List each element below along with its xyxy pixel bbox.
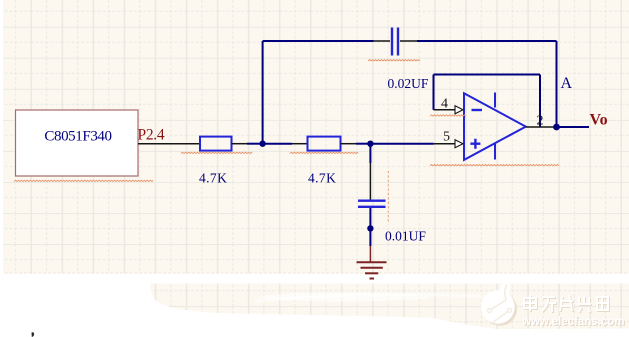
svg-text:2: 2 [537, 114, 544, 129]
feedback wire down to output [539, 75, 541, 128]
resistor R1 [200, 137, 232, 151]
wire C2 to ground [369, 208, 371, 246]
op-amp plus sign [470, 139, 480, 149]
svg-text:4.7K: 4.7K [308, 171, 336, 186]
trace upper [491, 300, 506, 310]
wire IC to R1 [138, 143, 200, 145]
resistor R2 [308, 137, 341, 151]
pin 4 arrow [455, 106, 463, 114]
wire top down to output node [556, 41, 558, 127]
junction node C2/ground [367, 225, 373, 231]
wire node to R2 [263, 143, 292, 145]
svg-text:0.02UF: 0.02UF [388, 76, 429, 91]
op-amp U2 triangle [464, 93, 526, 160]
feedback wire top [434, 74, 541, 76]
junction node R1/R2/C1 [259, 141, 265, 147]
top wire left of C1 [263, 40, 374, 42]
op-amp minus sign [472, 109, 483, 111]
op-amp power stub bottom [494, 144, 496, 160]
flame lobe [500, 283, 511, 302]
output pin wire [526, 126, 557, 128]
ground pin wire [369, 246, 371, 262]
top wire right of C1 [400, 40, 417, 42]
wire node to pin 5 [370, 143, 433, 145]
svg-text:5: 5 [443, 130, 450, 145]
ERC marker squiggle under IC box [14, 180, 153, 181]
watermark chinese glyphs [525, 296, 609, 313]
output junction node A [553, 124, 560, 131]
white swoosh over lower grid [260, 293, 430, 302]
op-amp power stub top [494, 93, 496, 108]
svg-text:P2.4: P2.4 [138, 127, 165, 144]
ERC marker squiggle under pin 4 [430, 115, 466, 116]
wire R2 to node [341, 143, 357, 145]
svg-text:0.01UF: 0.01UF [385, 229, 426, 244]
wire riser node to top wire [262, 41, 264, 144]
lower grid patch [150, 284, 629, 330]
ERC marker squiggle under R2 [290, 152, 358, 153]
stray ink dot bottom left [32, 332, 35, 337]
junction node R2/C2/op-amp [367, 141, 373, 147]
ERC marker squiggle under C1 [368, 60, 420, 61]
pin 4 wire [434, 109, 456, 111]
svg-text:A: A [561, 75, 573, 92]
svg-text:C8051F340: C8051F340 [44, 129, 111, 145]
wire R1 to node [232, 143, 248, 145]
IC U1 box [16, 110, 139, 176]
wire node to Vo [557, 126, 590, 128]
svg-text:4: 4 [441, 97, 448, 112]
flame gap cut [505, 285, 507, 300]
wire node down to C2 [369, 144, 371, 163]
capacitor C2 0.01UF [358, 199, 386, 201]
pin 5 arrow [455, 140, 463, 148]
svg-text:4.7K: 4.7K [199, 171, 227, 186]
ERC marker squiggle under op-amp [430, 165, 559, 166]
trace lower [490, 312, 508, 325]
watermark logo circle [481, 283, 517, 326]
ERC marker squiggle under wire/R1 [181, 152, 252, 153]
capacitor C1 0.02UF [391, 28, 393, 56]
svg-text:www.elecfans.com: www.elecfans.com [521, 316, 624, 328]
ground symbol [357, 262, 387, 278]
ERC marker dashed vertical near C2 [387, 171, 389, 222]
feedback wire pin4 up [433, 75, 435, 110]
svg-text:Vo: Vo [590, 112, 608, 129]
